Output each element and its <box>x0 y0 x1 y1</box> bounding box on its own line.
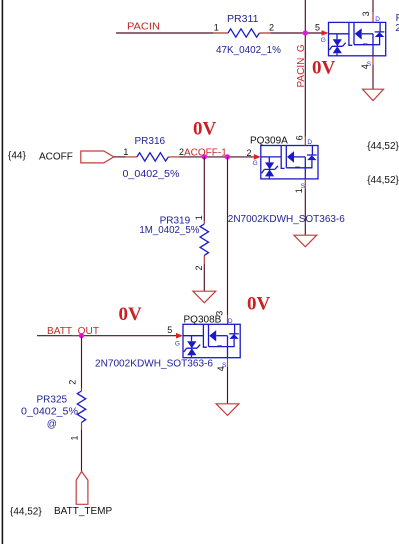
svg-text:PR311: PR311 <box>227 14 259 25</box>
transistor PQ308A (top right, partially off-sheet) <box>315 11 386 69</box>
pin stub source PQ308B <box>227 358 229 367</box>
wire BATT_OUT down to PR325 <box>81 336 83 389</box>
svg-text:S: S <box>367 61 372 68</box>
svg-text:1: 1 <box>70 435 80 440</box>
resistor PR316 <box>123 136 185 180</box>
wire source PQ308B to ground <box>227 367 229 404</box>
svg-text:0V: 0V <box>312 58 336 79</box>
junction PACIN/PACIN_G <box>303 30 308 35</box>
svg-text:D: D <box>375 16 380 23</box>
wire PACIN_G vertical <box>304 0 306 137</box>
hierarchical port BATT_TEMP <box>76 471 88 504</box>
hierarchical port ACOFF <box>81 151 114 163</box>
pin stub drain PQ308A <box>372 12 374 22</box>
svg-text:BATT_OUT: BATT_OUT <box>47 326 99 337</box>
svg-text:47K_0402_1%: 47K_0402_1% <box>216 45 281 56</box>
resistor PR325 <box>21 380 86 441</box>
svg-text:1: 1 <box>214 23 219 33</box>
svg-text:{44,52}: {44,52} <box>10 506 42 517</box>
svg-text:2N7002KDWH_SOT363-6: 2N7002KDWH_SOT363-6 <box>228 214 345 225</box>
wire PACIN horizontal <box>116 32 213 34</box>
svg-text:G: G <box>321 37 326 44</box>
ground (below PR319) <box>193 291 216 303</box>
wire ACOFF-1 down to PQ308B drain <box>227 157 229 315</box>
junction ACOFF-1 / PR319 <box>202 154 207 159</box>
svg-text:G: G <box>175 340 180 347</box>
transistor PQ308B <box>95 311 240 372</box>
wire PACIN right segment to gate of PQ308A <box>271 32 322 34</box>
svg-text:{44,52}: {44,52} <box>367 141 399 152</box>
sheet frame line <box>2 0 4 544</box>
svg-text:{44}: {44} <box>8 151 26 162</box>
transistor PQ309A <box>228 135 345 225</box>
svg-text:1M_0402_5%: 1M_0402_5% <box>139 225 199 236</box>
wire source PQ308A to ground <box>372 65 374 89</box>
ground (below PQ308B) <box>216 404 239 416</box>
svg-text:2: 2 <box>68 380 78 385</box>
svg-text:0V: 0V <box>193 118 217 139</box>
wire PR319 to ground <box>203 264 205 291</box>
wire PR325 to BATT_TEMP port <box>81 429 83 471</box>
pin stub source PQ309A <box>304 179 306 188</box>
svg-text:2: 2 <box>194 265 204 270</box>
svg-text:3: 3 <box>361 11 371 16</box>
svg-text:2: 2 <box>269 22 274 32</box>
svg-text:0_0402_5%: 0_0402_5% <box>21 407 78 418</box>
svg-text:0V: 0V <box>247 294 271 315</box>
svg-text:5: 5 <box>315 22 320 32</box>
svg-text:PR316: PR316 <box>135 136 166 147</box>
svg-text:BATT_TEMP: BATT_TEMP <box>54 506 112 517</box>
wire source PQ309A to ground <box>304 188 306 235</box>
svg-text:2: 2 <box>246 148 251 158</box>
svg-text:2N7002KDWH_SOT363-6: 2N7002KDWH_SOT363-6 <box>95 358 213 369</box>
svg-text:5: 5 <box>167 325 172 335</box>
svg-text:0_0402_5%: 0_0402_5% <box>123 169 180 180</box>
svg-text:1: 1 <box>194 215 204 220</box>
svg-text:PR325: PR325 <box>37 394 68 405</box>
resistor PR319 <box>139 215 208 270</box>
svg-text:1: 1 <box>123 147 128 157</box>
svg-text:ACOFF: ACOFF <box>39 151 73 162</box>
wire ACOFF-1 down to PR319 <box>203 157 205 221</box>
svg-text:D: D <box>228 318 233 325</box>
svg-text:D: D <box>307 139 312 146</box>
svg-text:6: 6 <box>294 135 304 140</box>
ground (below PQ309A) <box>294 235 317 247</box>
resistor PR311 <box>213 14 281 56</box>
junction ACOFF-1 / PQ308B drain <box>225 154 230 159</box>
wire drain of PQ308A <box>372 0 374 12</box>
svg-text:PQ309A: PQ309A <box>250 136 288 147</box>
wire ACOFF to PR316 <box>114 156 126 158</box>
svg-text:PACIN_G: PACIN_G <box>296 44 307 87</box>
ground (top right) <box>363 89 384 100</box>
pin stub source PQ308A <box>372 56 374 65</box>
svg-text:3: 3 <box>215 311 225 316</box>
pin stub drain PQ308B <box>227 315 229 324</box>
wire ACOFF-1 to gate of PQ309A <box>180 156 254 158</box>
svg-text:2N7002KDWH_SOT363-6: 2N7002KDWH_SOT363-6 <box>395 23 399 34</box>
junction BATT_OUT / PR325 <box>79 333 84 338</box>
pin stub drain PQ309A <box>304 137 306 146</box>
wire BATT_OUT <box>37 335 176 337</box>
svg-text:PACIN: PACIN <box>127 22 160 33</box>
svg-text:0V: 0V <box>119 304 143 325</box>
svg-text:S: S <box>222 362 227 369</box>
svg-text:G: G <box>253 160 258 167</box>
svg-text:{44,52}: {44,52} <box>367 175 399 186</box>
svg-text:@: @ <box>47 419 57 430</box>
